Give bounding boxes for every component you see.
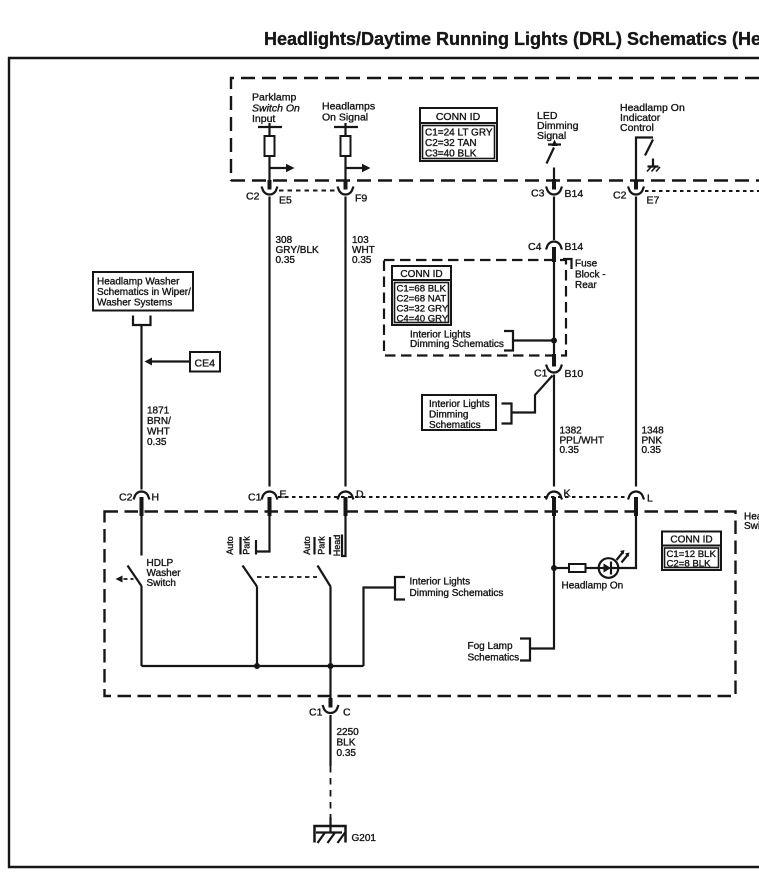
svg-text:Dimming Schematics: Dimming Schematics xyxy=(410,588,504,599)
wire 1348 PNK (E7 to L) xyxy=(635,197,637,487)
wire 2250 BLK dashed part xyxy=(330,766,332,820)
HDLP washer switch actuator arrow xyxy=(116,576,134,583)
svg-text:0.35: 0.35 xyxy=(276,255,296,266)
selector switch blade (right) xyxy=(318,566,331,699)
connector pin L xyxy=(628,491,653,516)
dotted line from E7 to right edge xyxy=(645,190,759,192)
label 103 WHT 0.35 xyxy=(352,235,375,266)
svg-text:H: H xyxy=(152,492,160,504)
wire 1871 BRN/WHT xyxy=(140,325,142,490)
svg-text:CONN ID: CONN ID xyxy=(400,269,442,280)
mini chassis ground glyph xyxy=(647,159,660,172)
svg-text:Interior Lights: Interior Lights xyxy=(429,399,490,410)
svg-text:0.35: 0.35 xyxy=(560,445,580,456)
ground G201 xyxy=(315,817,377,844)
svg-text:Control: Control xyxy=(620,122,654,134)
svg-text:Park: Park xyxy=(241,536,251,555)
svg-text:On Signal: On Signal xyxy=(322,112,368,124)
svg-text:C4: C4 xyxy=(528,241,542,253)
connector C1 pin E xyxy=(248,489,287,517)
svg-text:Switch: Switch xyxy=(147,578,176,589)
label 1871 BRN/WHT 0.35 xyxy=(147,406,171,449)
main wire through fuse block xyxy=(553,262,555,354)
svg-text:Schematics: Schematics xyxy=(468,653,520,664)
label: Fuse Block - Rear xyxy=(575,259,606,292)
wire E5 down to E xyxy=(268,197,270,487)
svg-text:C: C xyxy=(343,707,351,719)
title xyxy=(264,29,759,49)
connector pin K xyxy=(546,488,571,517)
svg-text:C3=40 BLK: C3=40 BLK xyxy=(425,149,477,160)
label 1382 PPL/WHT 0.35 xyxy=(560,426,604,457)
svg-text:L: L xyxy=(647,493,653,505)
svg-text:C2: C2 xyxy=(613,190,627,202)
wire F9 down to D xyxy=(344,197,346,487)
svg-text:0.35: 0.35 xyxy=(337,748,357,759)
svg-text:Input: Input xyxy=(252,113,275,125)
label: Interior Lights Dimming Schematics (switch) xyxy=(410,577,504,600)
svg-text:C1: C1 xyxy=(534,368,548,380)
svg-text:Park: Park xyxy=(316,536,326,555)
CONN ID table (top) xyxy=(420,108,497,161)
svg-text:C4=40 GRY: C4=40 GRY xyxy=(397,314,449,325)
svg-text:Schematics: Schematics xyxy=(429,420,481,431)
arrow branch (parklamp) xyxy=(270,164,295,172)
svg-text:F9: F9 xyxy=(355,193,367,205)
dotted net line across lower connector row xyxy=(278,496,629,498)
svg-text:CONN ID: CONN ID xyxy=(670,535,712,546)
resistor (headlamp on LED) xyxy=(554,564,599,572)
wire E into park position xyxy=(256,516,270,552)
junction dot (left blade to bus) xyxy=(254,663,260,669)
svg-text:C2=32 TAN: C2=32 TAN xyxy=(425,138,477,149)
connector pin D xyxy=(338,489,365,517)
label 2250 BLK 0.35 xyxy=(337,727,360,759)
off-page bracket: interior lights dimming (B10 branch) xyxy=(502,404,512,424)
wire LED node down to fog lamp tap xyxy=(530,568,554,649)
svg-text:Washer Systems: Washer Systems xyxy=(97,298,172,309)
CE4 reference box with arrow xyxy=(145,352,221,372)
headlamp switch dashed box xyxy=(105,512,736,697)
svg-text:Headlamp Washer: Headlamp Washer xyxy=(97,277,180,288)
LED emission arrows xyxy=(617,550,630,563)
svg-text:WHT: WHT xyxy=(147,427,170,438)
connector C2 pin E7 xyxy=(613,180,660,207)
svg-text:K: K xyxy=(564,488,571,500)
connector C4 pin B14 (into fuse block) xyxy=(528,241,583,262)
connector C2 pin H (into headlamp switch) xyxy=(119,491,159,516)
wire K down to LED node xyxy=(553,516,555,568)
wire 1382 PPL/WHT (B10 to K) xyxy=(553,375,555,487)
junction dot (fuse block tap) xyxy=(551,338,557,344)
svg-text:B14: B14 xyxy=(565,188,584,200)
fuse block label bracket xyxy=(563,259,572,269)
DRL module dashed box (top) xyxy=(231,78,759,181)
svg-text:1871: 1871 xyxy=(147,406,170,417)
selector switch positions Auto/Park/Head (right) xyxy=(302,535,342,557)
connector C2 pin F9 xyxy=(338,180,368,205)
HDLP washer switch SW xyxy=(128,516,142,666)
CONN ID table (headlamp switch) xyxy=(662,532,721,571)
label: Headlamps On Signal xyxy=(322,101,375,124)
connector C2 pin E5 xyxy=(246,180,292,207)
fuse block rear dashed box xyxy=(384,260,566,356)
svg-text:CONN ID: CONN ID xyxy=(436,111,481,123)
svg-text:C2: C2 xyxy=(246,191,260,203)
connector C1 pin C (out of headlamp switch) xyxy=(309,698,351,719)
interior lights dimming tap label (in fuse block) xyxy=(410,330,504,351)
wire D into head position xyxy=(342,516,346,556)
arrow branch (headlamps) xyxy=(346,164,371,172)
svg-text:0.35: 0.35 xyxy=(642,445,662,456)
connector C3 pin B14 xyxy=(531,179,583,200)
connector C1 pin B10 (out of fuse block) xyxy=(534,354,583,380)
junction dot (right blade to bus) xyxy=(328,663,334,669)
fuse (parklamp switch on input) xyxy=(258,123,282,181)
svg-text:D: D xyxy=(356,489,364,501)
svg-text:Dimming Schematics: Dimming Schematics xyxy=(410,339,504,350)
label 1348 PNK 0.35 xyxy=(642,426,665,457)
off-page bracket: interior lights dimming (switch) xyxy=(395,577,405,600)
svg-text:G201: G201 xyxy=(352,833,377,844)
label: Parklamp Switch On Input xyxy=(252,92,300,126)
svg-text:C3: C3 xyxy=(531,188,545,200)
svg-text:Signal: Signal xyxy=(537,130,566,142)
svg-text:Fuse: Fuse xyxy=(575,259,598,270)
svg-text:C2: C2 xyxy=(119,492,133,504)
svg-text:BRN/: BRN/ xyxy=(147,416,171,427)
selector switch blade (left) xyxy=(243,566,258,667)
off-page bracket below washer box xyxy=(133,316,151,326)
svg-text:C1: C1 xyxy=(248,492,262,504)
mechanical linkage dashed xyxy=(257,576,317,578)
svg-text:Rear: Rear xyxy=(575,280,597,291)
label: Headlamp Switch (clipped at edge) xyxy=(744,512,759,533)
wire LED to L xyxy=(618,516,636,568)
wire C3 to C4 xyxy=(553,197,555,241)
wire 2250 BLK solid part xyxy=(329,715,331,766)
tap wire to interior lights dimming (switch) xyxy=(364,588,396,667)
label 308 GRY/BLK 0.35 xyxy=(276,235,319,266)
label: LED Dimming Signal xyxy=(537,110,579,142)
svg-text:B10: B10 xyxy=(565,368,584,380)
svg-text:0.35: 0.35 xyxy=(147,437,167,448)
svg-text:C2=8 BLK: C2=8 BLK xyxy=(667,559,712,570)
svg-text:2250: 2250 xyxy=(337,727,360,738)
svg-text:Auto: Auto xyxy=(225,536,235,555)
interior lights dimming schematics box xyxy=(422,395,496,431)
svg-text:Dimming: Dimming xyxy=(429,410,468,421)
svg-text:CE4: CE4 xyxy=(195,358,216,370)
fuse (headlamps on signal) xyxy=(334,123,358,181)
LED indicator (headlamp on) xyxy=(599,558,619,578)
svg-text:Block -: Block - xyxy=(575,270,606,281)
headlamp on indicator switch symbol xyxy=(636,138,653,182)
svg-text:E7: E7 xyxy=(647,195,660,207)
svg-text:Interior Lights: Interior Lights xyxy=(410,577,471,588)
label: HDLP Washer Switch xyxy=(147,558,182,589)
junction dot (LED node) xyxy=(551,565,557,571)
svg-text:Fog Lamp: Fog Lamp xyxy=(468,641,513,652)
svg-text:Switch: Switch xyxy=(744,521,759,532)
svg-text:0.35: 0.35 xyxy=(352,255,372,266)
label: Headlamp On xyxy=(562,581,624,592)
svg-text:E: E xyxy=(280,489,287,501)
selector switch positions Auto/Park (left) xyxy=(225,536,256,555)
LED dimming signal arrow symbol xyxy=(547,140,562,181)
branch wire to interior lights dimming box xyxy=(512,376,553,413)
bus wire at bottom of switch xyxy=(142,665,364,667)
label: Headlamp On Indicator Control xyxy=(620,102,685,134)
off-page bracket: interior lights dimming (fuse block) xyxy=(504,331,552,351)
svg-text:Headlights/Daytime Running Lig: Headlights/Daytime Running Lights (DRL) … xyxy=(264,29,759,49)
headlamp washer schematics box xyxy=(93,272,193,311)
svg-text:Head: Head xyxy=(332,535,342,557)
off-page bracket: fog lamp schematics xyxy=(520,639,530,661)
svg-text:E5: E5 xyxy=(279,195,292,207)
svg-text:BLK: BLK xyxy=(337,738,356,749)
label: Fog Lamp Schematics xyxy=(468,641,520,664)
svg-text:Headlamp On: Headlamp On xyxy=(562,581,624,592)
svg-text:C1=24 LT GRY: C1=24 LT GRY xyxy=(425,128,493,139)
dashed link E5 to F9 xyxy=(279,190,338,192)
svg-text:C1: C1 xyxy=(309,707,323,719)
svg-text:Auto: Auto xyxy=(302,536,312,555)
CONN ID table (fuse block) xyxy=(392,266,451,325)
svg-text:Schematics in Wiper/: Schematics in Wiper/ xyxy=(97,287,191,298)
svg-text:B14: B14 xyxy=(565,241,584,253)
